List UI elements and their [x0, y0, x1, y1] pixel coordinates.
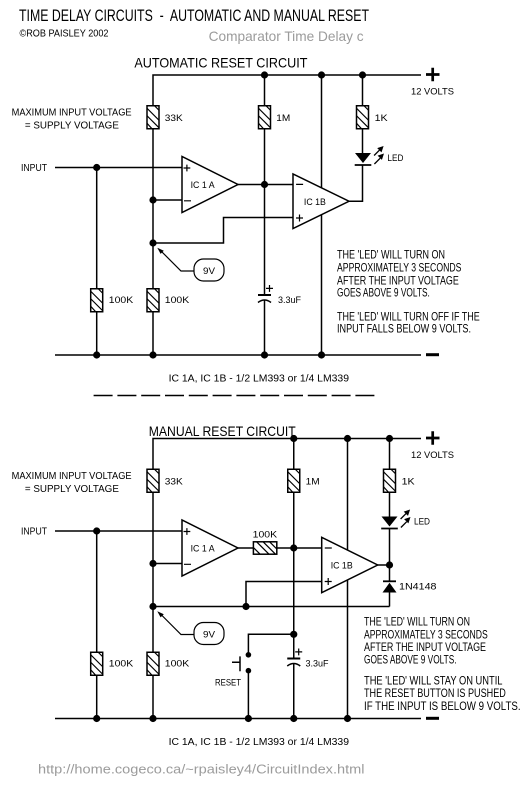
svg-text:INPUT FALLS BELOW 9 VOLTS.: INPUT FALLS BELOW 9 VOLTS.: [337, 322, 471, 336]
node dots on ground rail (manual): [93, 715, 100, 722]
wire: 33K to divider node column: [152, 129, 154, 290]
node: output junction dot (manual): [386, 561, 393, 568]
wire: 1K to LED (manual): [389, 492, 391, 517]
wire: node down to capacitor (manual): [293, 548, 295, 659]
node: rail dot power line: [318, 71, 325, 78]
op-amp IC 1A (automatic): [182, 157, 238, 213]
wire: ground rail (automatic): [55, 354, 421, 356]
wire: series resistor to IC1B inverting input: [277, 547, 322, 549]
svg-text:100K: 100K: [109, 659, 134, 670]
wire: IC1B V- to ground (manual): [347, 580, 349, 719]
svg-text:INPUT: INPUT: [21, 163, 47, 174]
wire: right 100K to ground (manual): [152, 675, 154, 719]
wire: top supply rail (manual): [153, 439, 421, 470]
op-amp IC 1B (automatic): [293, 174, 349, 229]
negative terminal (automatic): [426, 353, 439, 356]
svg-text:IC 1A, IC 1B - 1/2 LM393 or 1/: IC 1A, IC 1B - 1/2 LM393 or 1/4 LM339: [169, 737, 350, 748]
node: inverting input junction (automatic): [149, 196, 156, 203]
wire: feedback to IC1B non-inverting input (automatic): [153, 218, 293, 244]
svg-text:= SUPPLY VOLTAGE: = SUPPLY VOLTAGE: [25, 484, 119, 495]
svg-text:Comparator Time Delay c: Comparator Time Delay c: [209, 28, 364, 44]
node: 9V reference dot (automatic): [149, 239, 156, 246]
svg-text:INPUT: INPUT: [21, 527, 47, 538]
svg-text:THE 'LED' WILL TURN ON: THE 'LED' WILL TURN ON: [364, 615, 470, 629]
node 9V callout (manual): [157, 611, 224, 644]
svg-text:= SUPPLY VOLTAGE: = SUPPLY VOLTAGE: [25, 121, 119, 132]
node: rail dot at 1M: [261, 71, 268, 78]
wire: input line (automatic): [55, 167, 182, 169]
node: feedback tee dot (manual): [242, 603, 249, 610]
node: rail dot at 1K (manual): [386, 435, 393, 442]
node: output / 1M junction: [261, 181, 268, 188]
svg-text:IC 1 A: IC 1 A: [191, 544, 216, 555]
wire: LED to output node (manual): [389, 529, 391, 566]
svg-text:1M: 1M: [306, 477, 320, 488]
wire: IC1B output to LED column (automatic): [349, 165, 363, 201]
capacitor C2 3.3uF (manual): [287, 658, 300, 660]
svg-text:IC 1B: IC 1B: [304, 197, 326, 208]
node: inverting input junction (manual): [149, 560, 156, 567]
node: 9V reference dot (manual): [149, 603, 156, 610]
wire: 1M node down to capacitor: [264, 185, 266, 296]
wire: IC1A output to IC1B inverting input (automatic): [238, 184, 293, 186]
node: 1M junction (manual): [290, 544, 297, 551]
wire: feedback rail (manual): [153, 606, 390, 608]
diode 1N4148: [383, 580, 396, 582]
wire: to IC1A inverting input (manual): [153, 563, 182, 565]
wire: left 100K branch (manual): [96, 531, 98, 653]
wire: rail to 1K (manual): [389, 439, 391, 470]
svg-text:http://home.cogeco.ca/~rpaisle: http://home.cogeco.ca/~rpaisley4/Circuit…: [38, 762, 365, 777]
svg-text:MANUAL RESET CIRCUIT: MANUAL RESET CIRCUIT: [149, 423, 296, 439]
description text (automatic): [337, 248, 480, 336]
description text (manual): [364, 615, 521, 713]
op-amp IC 1B (manual): [322, 537, 378, 592]
wire: ground rail (manual): [55, 718, 421, 720]
resistor 100K left (automatic): [91, 289, 103, 312]
svg-text:©ROB PAISLEY 2002: ©ROB PAISLEY 2002: [20, 27, 109, 39]
svg-text:IC 1A, IC 1B - 1/2 LM393 or 1/: IC 1A, IC 1B - 1/2 LM393 or 1/4 LM339: [169, 374, 350, 385]
resistor 1M (automatic): [259, 106, 271, 129]
dashed separator: [94, 395, 375, 397]
wire: 1M to output node: [264, 129, 266, 185]
wire: 33K to divider column (manual): [152, 492, 154, 653]
svg-text:100K: 100K: [109, 295, 134, 306]
LED D1 (automatic): [355, 146, 384, 165]
+12V terminal (manual): [426, 431, 440, 444]
resistor 100K series (manual): [253, 542, 276, 554]
svg-text:GOES ABOVE 9 VOLTS.: GOES ABOVE 9 VOLTS.: [364, 653, 457, 667]
svg-text:GOES ABOVE 9 VOLTS.: GOES ABOVE 9 VOLTS.: [337, 286, 430, 300]
svg-text:LED: LED: [387, 153, 403, 164]
svg-text:APPROXIMATELY 3 SECONDS: APPROXIMATELY 3 SECONDS: [337, 261, 461, 275]
svg-text:MAXIMUM INPUT VOLTAGE: MAXIMUM INPUT VOLTAGE: [12, 107, 132, 118]
svg-text:RESET: RESET: [215, 678, 241, 689]
wire: tee up to IC1B non-inverting input (manual): [246, 582, 322, 607]
LED D2 (manual): [381, 510, 410, 529]
wire: to IC1A inverting input: [153, 199, 182, 201]
wire: IC1B V+ from rail (manual): [347, 439, 349, 551]
svg-text:100K: 100K: [165, 295, 190, 306]
pushbutton RESET: [246, 652, 252, 658]
svg-text:IC 1B: IC 1B: [331, 560, 353, 571]
capacitor C1 3.3uF (automatic): [258, 294, 271, 296]
wire: rail to 1K: [362, 75, 364, 106]
wire: reset button to ground (manual): [247, 671, 249, 719]
op-amp IC 1A (manual): [182, 520, 238, 576]
svg-text:IF THE INPUT IS BELOW 9 VOLTS.: IF THE INPUT IS BELOW 9 VOLTS.: [364, 699, 521, 713]
svg-text:33K: 33K: [165, 113, 184, 124]
node: input junction dot (manual): [93, 527, 100, 534]
wire: IC1B V- to ground rail: [321, 215, 323, 355]
wire: IC1B output (manual): [378, 564, 390, 566]
svg-text:1K: 1K: [402, 477, 416, 488]
resistor 33K (automatic): [147, 106, 159, 129]
svg-text:IC 1 A: IC 1 A: [191, 180, 216, 191]
svg-text:1M: 1M: [276, 113, 290, 124]
node dots on ground rail (automatic): [93, 351, 100, 358]
resistor 1M (manual): [288, 469, 300, 492]
svg-text:MAXIMUM INPUT VOLTAGE: MAXIMUM INPUT VOLTAGE: [12, 471, 132, 482]
svg-text:1N4148: 1N4148: [399, 581, 437, 592]
resistor 1K (manual): [384, 469, 396, 492]
svg-text:33K: 33K: [165, 477, 184, 488]
svg-text:LED: LED: [414, 517, 430, 528]
node 9V callout (automatic): [157, 248, 224, 281]
resistor 100K left (manual): [91, 652, 103, 675]
wire: left 100K to ground rail: [96, 312, 98, 356]
wire: capacitor to ground rail: [264, 301, 266, 356]
wire: top supply rail (automatic): [153, 75, 421, 106]
wire: rail to 1M: [264, 75, 266, 106]
svg-text:3.3uF: 3.3uF: [278, 295, 301, 306]
wire: left 100K to ground (manual): [96, 675, 98, 719]
negative terminal (manual): [426, 717, 439, 720]
svg-text:3.3uF: 3.3uF: [306, 659, 329, 670]
wire: reset button top branch (manual): [248, 634, 293, 655]
wire: right 100K to ground rail: [152, 312, 154, 356]
resistor 1K (automatic): [357, 106, 369, 129]
resistor 100K right (automatic): [147, 289, 159, 312]
node: rail dot power line (manual): [344, 435, 351, 442]
wire: 1M to node (manual): [293, 492, 295, 548]
svg-text:12 VOLTS: 12 VOLTS: [411, 86, 454, 96]
node: rail dot at 1K: [359, 71, 366, 78]
wire: IC1A output to series resistor (manual): [238, 547, 253, 549]
wire: left 100K branch (automatic): [96, 168, 98, 290]
svg-text:100K: 100K: [165, 659, 190, 670]
wire: input line (manual): [55, 530, 182, 532]
+12V terminal (automatic): [426, 68, 440, 81]
wire: output node to diode (manual): [389, 565, 391, 581]
node: capacitor line dot (manual): [290, 631, 297, 638]
svg-text:TIME DELAY CIRCUITS - AUTOMA: TIME DELAY CIRCUITS - AUTOMATIC AND MANU…: [19, 7, 369, 25]
svg-text:100K: 100K: [253, 530, 278, 541]
wire: IC1B V+ from rail: [321, 75, 323, 188]
wire: rail to 1M (manual): [293, 439, 295, 470]
node: input junction dot: [93, 164, 100, 171]
svg-text:12 VOLTS: 12 VOLTS: [411, 450, 454, 460]
resistor 33K (manual): [147, 469, 159, 492]
node: rail dot at 1M (manual): [290, 435, 297, 442]
wire: capacitor to ground (manual): [293, 664, 295, 719]
wire: 1K to LED: [362, 129, 364, 154]
svg-text:1K: 1K: [375, 113, 389, 124]
resistor 100K right (manual): [147, 652, 159, 675]
wire: diode to feedback rail (manual): [389, 593, 391, 607]
svg-text:AUTOMATIC RESET CIRCUIT: AUTOMATIC RESET CIRCUIT: [134, 54, 307, 70]
